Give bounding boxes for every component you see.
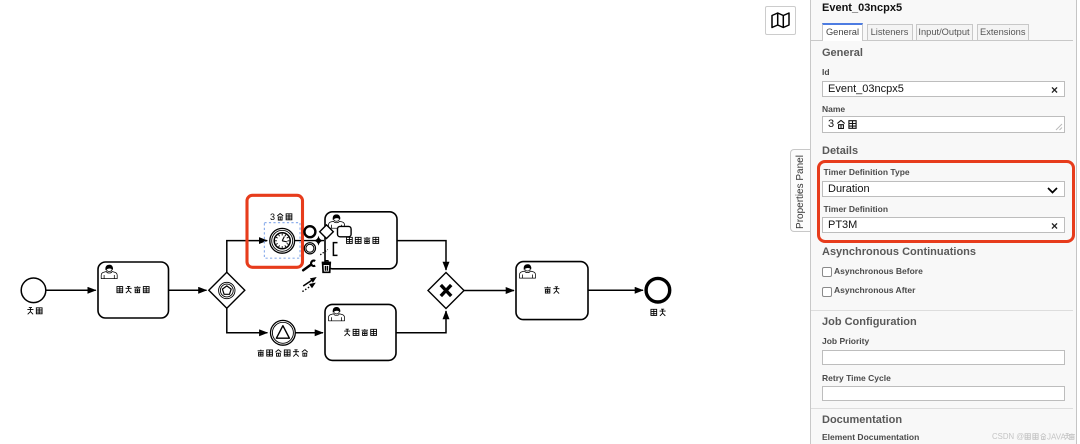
pad: append text annotation (320, 250, 328, 255)
pad: connect tool (solid arrow) (303, 280, 312, 286)
pad: append gateway (320, 225, 334, 239)
input Job Priority (empty) (822, 350, 1065, 365)
pad: append intermediate event (304, 243, 315, 254)
properties panel (810, 0, 1077, 444)
wire 组长审批→gateway (169, 289, 207, 291)
scrollbar line (1076, 0, 1077, 444)
label Element Documentation (822, 432, 919, 442)
input Retry Time Cycle (empty) (822, 386, 1065, 401)
event-based gateway (209, 272, 245, 308)
svg-text:JAVA: JAVA (1047, 432, 1066, 441)
diagram labels (CJK as fake glyphs) (27, 212, 665, 356)
task 组长审批 (98, 262, 169, 318)
heading Details (822, 145, 858, 157)
tab Input/Output (916, 24, 973, 41)
label 结束 (651, 309, 657, 315)
task 人事审批 (325, 304, 396, 360)
checkbox Asynchronous After (822, 287, 832, 297)
textarea Name = 3分钟 (822, 116, 1065, 133)
label Id (822, 67, 830, 77)
heading Documentation (822, 414, 902, 426)
start event 开始 (21, 278, 46, 303)
label 组长审批 (117, 287, 123, 293)
label 保存 (544, 287, 550, 293)
label 收到提醒信号 (258, 350, 264, 356)
select Duration (822, 181, 1065, 197)
exclusive gateway X (428, 273, 464, 309)
wire start→组长审批 (46, 289, 96, 291)
separator (811, 310, 1073, 311)
wire gateway→timer (227, 241, 267, 273)
label Retry Time Cycle (822, 373, 891, 383)
wire signal→人事审批 (295, 332, 323, 334)
label Name (822, 104, 845, 114)
watermark CSDN (992, 432, 1075, 441)
wire X gateway→保存 (464, 290, 514, 292)
timer intermediate catch event 3分钟 (270, 228, 295, 253)
task 经理审批 (325, 212, 397, 269)
heading General (822, 47, 863, 59)
panel title (822, 2, 902, 14)
crosshair sparkle (314, 236, 324, 246)
selection outline (dashed) around timer (264, 223, 300, 259)
label 开始 (27, 307, 33, 314)
wire 保存→end (588, 289, 643, 291)
pad: connect tool (dashed arrow) (302, 285, 311, 291)
input PT3M (822, 217, 1065, 233)
heading Job Configuration (822, 316, 917, 328)
red highlight box around timer (247, 195, 303, 267)
label Timer Definition Type (824, 167, 910, 177)
pad: delete (trash) (322, 260, 331, 272)
label 人事审批 (344, 329, 350, 336)
signal intermediate catch event 收到提醒信号 (271, 320, 296, 345)
wire 经理审批→X gateway (397, 241, 446, 270)
wire timer→经理审批 (295, 240, 324, 242)
properties panel toggle tab (790, 149, 811, 232)
tab bar line (811, 40, 1073, 41)
checkbox Asynchronous Before (822, 267, 832, 277)
task 保存 (516, 262, 588, 320)
svg-text:3: 3 (270, 212, 275, 222)
label Job Priority (822, 336, 869, 346)
pad: change type (wrench) (303, 265, 311, 271)
separator (811, 408, 1073, 409)
label Timer Definition (824, 204, 889, 214)
wire 人事审批→X gateway (396, 311, 446, 333)
input Id (822, 81, 1065, 97)
red highlight box around timer fields (817, 160, 1075, 243)
end event 结束 (646, 278, 670, 302)
wire gateway→signal (227, 308, 268, 333)
pad: append end event (304, 226, 315, 237)
tab Extensions (977, 24, 1030, 41)
minimap toggle button (765, 6, 796, 35)
tab General (active) (822, 23, 863, 41)
context pad of selected timer event (302, 225, 351, 292)
pad: append task (338, 226, 352, 236)
tab Listeners (867, 24, 913, 41)
heading Asynchronous Continuations (822, 246, 976, 258)
label 经理审批 (347, 237, 353, 243)
